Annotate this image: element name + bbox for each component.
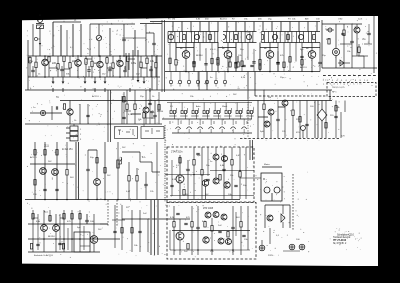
resistor: [71, 214, 73, 220]
transistor T30b: [226, 239, 232, 245]
filter capacitor: [313, 35, 316, 40]
eq extra verticals: [299, 101, 301, 139]
wire: [48, 55, 50, 57]
schematic page: [22, 16, 378, 266]
bus: [28, 223, 108, 225]
wire: [39, 29, 41, 57]
wire: [201, 147, 203, 170]
wire: [117, 142, 119, 200]
transformer core: [154, 200, 156, 255]
wire: [368, 24, 370, 33]
scan skew wedge bottom: [22, 264, 378, 267]
transistor T11: [143, 107, 149, 113]
resistor R13: [146, 58, 148, 64]
wire: [145, 24, 147, 56]
output frame: [74, 232, 90, 252]
wire: [179, 219, 181, 232]
wire: [126, 110, 128, 125]
transistor T2: [75, 60, 82, 67]
resistor: [126, 104, 128, 110]
resistor R8: [91, 61, 93, 67]
capacitor: [234, 62, 237, 63]
bus IF top rail: [150, 21, 320, 23]
resistor: [143, 113, 145, 119]
wire: [30, 112, 40, 114]
resistor R4: [57, 64, 59, 70]
wire screen divider: [161, 20, 163, 92]
power board dashed outline: [167, 203, 256, 260]
svg-text:2x AC 151: 2x AC 151: [62, 148, 73, 151]
wire: [127, 55, 129, 57]
wire: [282, 205, 284, 214]
capacitor: [204, 64, 207, 65]
wire stubs: [52, 88, 54, 92]
transistor T8: [308, 51, 316, 59]
transistor T13: [282, 100, 288, 106]
resistor: [217, 60, 219, 66]
capacitor: [242, 65, 245, 66]
capacitor C70: [85, 220, 88, 221]
transformer winding: [150, 200, 152, 255]
bus tuner ground rail: [28, 76, 160, 78]
resistor: [49, 216, 51, 222]
resistor: [136, 176, 138, 182]
IF dense filter band: [168, 31, 320, 33]
wire: [179, 155, 181, 175]
wire: [124, 66, 126, 70]
svg-text:Motor: Motor: [264, 163, 270, 166]
transistor T14: [264, 121, 270, 127]
resistor: [217, 58, 219, 64]
head dashed bus: [240, 138, 340, 140]
capacitor: [196, 227, 199, 228]
transistor T28b: [213, 212, 219, 218]
resistor: [259, 64, 261, 70]
wire coil link: [53, 21, 81, 23]
wire stubs above band: [172, 22, 174, 32]
svg-text:Schaltplan C210: Schaltplan C210: [337, 233, 355, 236]
resistor: [299, 117, 301, 123]
adjust arrow: [39, 26, 42, 29]
transistor T10: [67, 109, 73, 115]
adjust arrow: [97, 36, 102, 40]
capacitor: [170, 185, 173, 186]
wire: [239, 147, 241, 172]
wire: [55, 214, 57, 225]
rectifier frame: [265, 204, 290, 206]
resistor R11: [127, 56, 129, 62]
wire: [247, 72, 249, 100]
socket X2: [289, 244, 295, 250]
switch contact group S1-7: [236, 111, 238, 114]
bus lower rail: [25, 199, 240, 201]
resistor R1: [29, 57, 31, 63]
capacitor: [300, 56, 303, 57]
bus AF output: [322, 67, 377, 69]
resistor R52: [56, 150, 58, 156]
wire verticals: [34, 142, 36, 200]
transistor T23: [41, 225, 48, 232]
filter capacitor: [235, 35, 238, 40]
resistor: [301, 60, 303, 66]
IF transformer F5: [272, 34, 277, 39]
wire: [104, 142, 106, 200]
capacitor: [150, 111, 153, 112]
switch rail low: [172, 132, 252, 134]
resistor: [173, 222, 175, 228]
wire: [85, 56, 87, 59]
wire pair C: [151, 55, 153, 90]
resistor R9: [106, 58, 108, 64]
wire thick pair: [75, 142, 77, 200]
svg-text:AC151: AC151: [30, 156, 37, 159]
resistor: [183, 190, 185, 196]
resistor R50: [34, 150, 36, 156]
wire: [232, 206, 234, 227]
wire: [329, 90, 331, 101]
capacitor: [367, 33, 370, 34]
wire: [301, 43, 303, 60]
wire: [356, 24, 358, 27]
wire page-right vertical: [373, 14, 375, 73]
bias wire vertical: [335, 101, 337, 139]
wire: [211, 218, 213, 226]
svg-text:AC151: AC151: [300, 66, 307, 69]
transformer winding2: [157, 200, 159, 255]
wire: [149, 90, 151, 104]
wire: [231, 147, 233, 160]
resistor R63: [231, 160, 233, 166]
wire: [29, 56, 31, 57]
bus tuner emitter rail: [28, 55, 162, 57]
svg-text:M ~: M ~: [263, 178, 268, 181]
wire: [335, 24, 337, 48]
resistor R20: [343, 30, 345, 36]
capacitor C30: [56, 106, 57, 109]
resistor: [123, 97, 125, 103]
relay contacts: [118, 129, 121, 131]
wire vertical pair: [314, 101, 316, 139]
wire: [240, 206, 242, 222]
wire: [88, 66, 90, 70]
capacitor: [148, 103, 151, 104]
capacitor: [305, 124, 308, 125]
terminal dash row: [323, 75, 326, 77]
resistor: [283, 62, 285, 68]
wire: [100, 223, 108, 225]
wire: [146, 32, 154, 34]
bias trap diamond: [317, 109, 327, 121]
svg-text:BF194: BF194: [48, 236, 55, 238]
wire pair A: [125, 53, 127, 70]
transistor T27: [203, 237, 209, 243]
capacitor: [58, 243, 61, 244]
wire: [96, 150, 98, 179]
resistor R6: [69, 63, 71, 69]
capacitor: [318, 62, 321, 63]
capacitor: [206, 179, 209, 180]
resistor: [62, 244, 64, 250]
wire: [87, 150, 89, 169]
filter capacitor: [287, 35, 290, 40]
svg-text:AM: AM: [305, 18, 308, 21]
resistor: [325, 123, 327, 129]
svg-text:1M: 1M: [172, 19, 175, 21]
wire: [271, 193, 273, 201]
bus: [322, 23, 362, 25]
svg-text:BF194: BF194: [157, 111, 164, 113]
bus: [170, 195, 254, 197]
capacitor: [231, 227, 234, 228]
ferrite coil winding L2: [52, 22, 54, 56]
switch contact group S1-4: [203, 111, 205, 114]
wire jog: [176, 47, 194, 49]
capacitor: [138, 231, 141, 232]
wire: [98, 24, 100, 35]
capacitor: [36, 244, 39, 245]
bus: [112, 123, 162, 125]
svg-text:Endstufe 2x AC153: Endstufe 2x AC153: [34, 254, 54, 257]
wire: [277, 101, 279, 120]
oscillator coil L8: [332, 48, 339, 55]
bus: [165, 174, 210, 176]
coil winding L5: [80, 24, 82, 57]
capacitor: [123, 70, 126, 71]
wire jog: [364, 43, 372, 45]
IF transformer F4: [246, 34, 251, 39]
small coil: [328, 28, 332, 32]
ground stubs: [52, 77, 54, 82]
wire jogs: [49, 67, 58, 69]
playback board dashed outline: [167, 147, 254, 202]
wire: [61, 66, 63, 69]
resistor R64: [239, 172, 241, 178]
wire: [66, 142, 68, 170]
transistor T15: [40, 168, 47, 175]
resistor: [131, 228, 133, 234]
record head RK: [301, 126, 306, 131]
wire dotted vertical: [164, 125, 166, 202]
capacitor: [252, 62, 255, 63]
junction dots: [44, 55, 46, 57]
wire links right column: [326, 29, 334, 31]
transistor T19: [213, 154, 219, 160]
wire: [229, 56, 231, 62]
transistor T30: [218, 238, 224, 244]
capacitor: [276, 63, 279, 64]
transistor T5: [182, 51, 190, 59]
IF transformer F6: [298, 34, 303, 39]
wire: [86, 214, 88, 220]
wire: [57, 56, 59, 64]
transistor T3: [97, 61, 103, 67]
wire: [187, 160, 189, 169]
input jack J1: [40, 110, 45, 115]
resistor R7: [85, 59, 87, 65]
wire jog: [258, 116, 268, 118]
wire: [269, 43, 271, 51]
resistor: [204, 222, 206, 228]
wire: [284, 106, 286, 138]
resistor: [32, 214, 34, 220]
resistor R14: [155, 62, 157, 68]
resistor R62: [201, 170, 203, 176]
switch contact group S1-5: [214, 111, 216, 114]
wire: [358, 44, 360, 47]
capacitor: [43, 189, 46, 190]
resistor: [240, 222, 242, 228]
wire dotted vertical x248: [247, 99, 249, 139]
wire: [43, 210, 45, 225]
wire jog: [218, 47, 236, 49]
filter capacitor: [261, 35, 264, 40]
wire: [93, 214, 95, 236]
resistor: [63, 104, 65, 110]
wire: [154, 101, 156, 116]
capacitor: [218, 231, 221, 232]
wire: [150, 66, 152, 69]
wire jogs: [33, 217, 38, 219]
resistor: [158, 105, 160, 111]
wire chain: [114, 205, 116, 248]
resistor R53: [34, 180, 36, 186]
wire: [91, 56, 93, 61]
wire: [223, 147, 225, 169]
capacitor C51: [144, 184, 147, 185]
svg-text:AC151: AC151: [92, 95, 99, 98]
wire: [193, 43, 195, 63]
wire: [215, 147, 217, 154]
IF transformer F1: [168, 34, 173, 39]
transistor T26: [176, 232, 184, 240]
capacitor: [31, 70, 34, 71]
bus main rail B: [60, 100, 332, 102]
wire: [44, 56, 46, 59]
bus mid: [172, 230, 250, 232]
resistor R40: [263, 104, 265, 110]
capacitor: [184, 223, 187, 224]
transistor T31: [267, 215, 273, 221]
resistor: [128, 176, 130, 182]
transistor T1: [42, 59, 49, 66]
resistor R3: [48, 56, 50, 62]
wire long vertical pair: [107, 90, 109, 142]
capacitor: [108, 69, 111, 70]
svg-text:Wied.: Wied.: [222, 106, 228, 108]
capacitor: [334, 116, 337, 117]
switch rail top: [167, 102, 252, 104]
wire: [169, 230, 171, 250]
relay box K1: [115, 127, 138, 139]
wire: [121, 96, 123, 124]
resistor: [30, 244, 32, 250]
wire: [73, 124, 75, 126]
wire: [344, 101, 346, 113]
label bar: [262, 166, 282, 168]
transistor T29: [221, 214, 227, 220]
svg-text:OSZ: OSZ: [338, 19, 343, 21]
resistor: [219, 175, 221, 181]
switch contact group S1-6: [225, 111, 227, 114]
svg-text:2TAA 310: 2TAA 310: [171, 151, 182, 154]
wire: [198, 72, 200, 91]
resistor: [241, 61, 243, 67]
transistor T24: [53, 225, 60, 232]
wire: [69, 101, 71, 109]
resistor: [227, 232, 229, 238]
wire jog: [112, 219, 125, 221]
svg-text:BF194: BF194: [196, 55, 203, 57]
resistor: [328, 39, 330, 45]
wire: [259, 43, 261, 60]
svg-text:22n: 22n: [72, 60, 77, 63]
wire: [245, 147, 247, 199]
wire jog: [302, 47, 320, 49]
wire: [171, 160, 173, 196]
bus: [28, 238, 120, 240]
bus: [25, 123, 112, 125]
capacitor: [176, 213, 179, 214]
wire: [146, 56, 148, 58]
wire: [319, 43, 321, 63]
filter capacitor: [209, 35, 212, 40]
wire: [235, 43, 237, 63]
resistor: [211, 58, 213, 64]
bus IF lower rail: [165, 71, 320, 73]
switch tick row: [169, 121, 171, 124]
junction dots: [197, 249, 199, 251]
bus main rail A: [25, 89, 332, 91]
svg-text:TA: TA: [56, 96, 59, 99]
capacitor: [242, 235, 245, 236]
wire: [131, 210, 133, 252]
wire: [119, 56, 121, 60]
wire: [32, 24, 34, 56]
mains socket X1: [259, 245, 265, 251]
IF interstage verticals: [169, 43, 171, 72]
wire dashed: [107, 200, 109, 226]
socket X3: [299, 244, 305, 250]
coil winding L6: [109, 28, 111, 56]
resistor: [235, 63, 237, 69]
svg-text:1 2 3 4 5 6 7 8 9 10: 1 2 3 4 5 6 7 8 9 10: [323, 80, 370, 82]
resistor: [191, 222, 193, 228]
connector block P1: [70, 126, 78, 131]
capacitor: [196, 153, 199, 154]
wire: [69, 56, 71, 63]
scan skew wedge top: [22, 15, 378, 20]
capacitor C4: [152, 43, 155, 44]
capacitor: [113, 231, 116, 232]
wire verticals: [32, 210, 34, 252]
capacitor: [55, 189, 58, 190]
svg-text:1M: 1M: [268, 97, 271, 99]
switch contact group S1-8: [247, 111, 249, 114]
transistor T28: [205, 212, 211, 218]
wire: [257, 101, 259, 139]
wire pair tall: [249, 140, 251, 160]
svg-text:12V: 12V: [341, 136, 345, 138]
resistor: [63, 214, 65, 220]
bottom-left extra verticals: [37, 214, 39, 250]
resistor: [79, 214, 81, 220]
wire: [51, 106, 53, 120]
resistor: [211, 226, 213, 232]
wire stub: [140, 23, 162, 25]
wire: [156, 142, 158, 200]
svg-text:2111: 2111: [44, 146, 49, 148]
wire: [123, 24, 125, 39]
